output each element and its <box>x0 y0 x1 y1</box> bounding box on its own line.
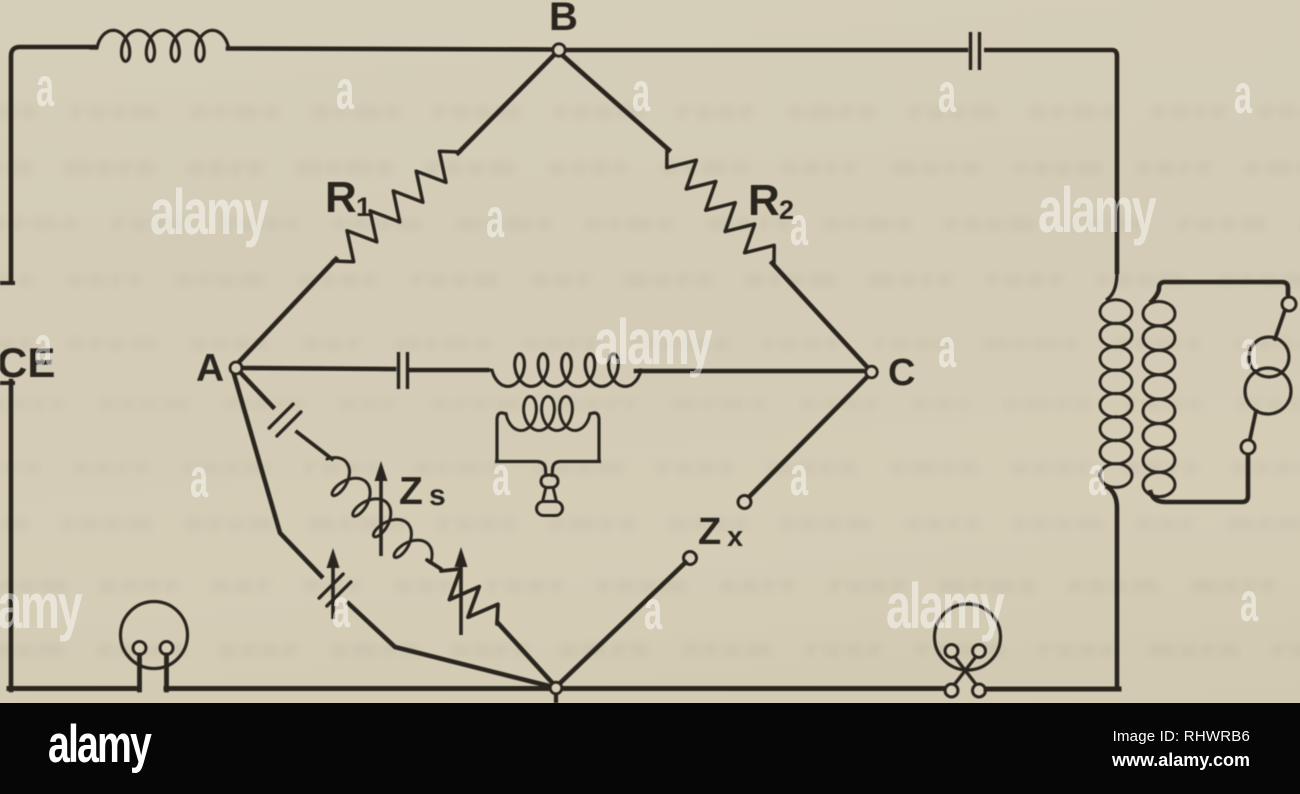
bottom rail right segment <box>986 687 1119 692</box>
crossed leads <box>955 657 977 686</box>
terminal circle Zx lower <box>684 552 697 565</box>
resistor R1 <box>333 151 460 261</box>
inductor Zs spiral <box>327 458 432 563</box>
variable resistor zigzag <box>441 569 498 624</box>
wire capacitor to corner and down <box>984 50 1117 274</box>
receiver terminals on rail <box>945 684 958 697</box>
terminal circle Zx upper <box>738 496 751 509</box>
wire A to resistor R1 <box>238 259 336 363</box>
plug/bob symbol below coupled coil <box>541 475 558 488</box>
receiver terminals upper <box>945 645 958 658</box>
wire Zx lower terminal to bottom node <box>556 563 686 688</box>
resistor R2 <box>667 148 774 265</box>
svg-text:Z: Z <box>698 511 721 553</box>
svg-text:1: 1 <box>356 192 371 222</box>
terminal circle lower <box>1241 440 1255 454</box>
wire variable resistor to bottom node <box>498 623 556 687</box>
wire secondary top to right corner terminal <box>1150 282 1288 303</box>
series inductor in A-C branch <box>484 354 641 387</box>
receiver terminals <box>133 642 146 655</box>
wire capacitor to series inductor <box>411 368 487 373</box>
transformer secondary coil <box>1143 302 1175 326</box>
wire node B to capacitor <box>563 48 966 53</box>
coupled coil (variometer secondary) <box>497 413 506 461</box>
wire left rail (top segment) with corner <box>11 47 96 284</box>
svg-text:C: C <box>888 352 915 394</box>
wire stub to source lower <box>0 381 13 385</box>
variable capacitor plates <box>319 574 343 598</box>
receiver bottom left: big circle <box>121 602 188 669</box>
svg-text:R: R <box>325 173 357 222</box>
phones double circle upper <box>1249 337 1289 377</box>
wire A lower-left branch to variable capacitor <box>233 371 323 578</box>
image id / url <box>1112 728 1250 771</box>
svg-text:s: s <box>429 479 446 512</box>
variable capacitor arrow <box>331 562 335 619</box>
bottom node <box>550 682 562 694</box>
bottom rail center segment <box>166 686 945 691</box>
wire node B to resistor R2 <box>561 54 669 150</box>
coupled coil bottom with center stem <box>495 462 546 478</box>
wire R1 to node B <box>458 54 555 153</box>
node C <box>866 366 878 378</box>
node A <box>230 362 242 374</box>
wire inductor to node B <box>228 49 552 50</box>
node B <box>553 44 565 56</box>
wire terminal to phones <box>1275 310 1285 339</box>
phones double circle lower <box>1245 368 1291 414</box>
bottom rail left segment <box>9 686 137 691</box>
wire A to series capacitor <box>240 368 394 369</box>
receiver bottom right: big circle <box>935 604 1001 670</box>
svg-text:A: A <box>196 347 224 390</box>
svg-text:x: x <box>727 521 743 553</box>
wire lower terminal to secondary bottom <box>1150 454 1248 502</box>
wire transformer primary to bottom rail <box>1106 486 1117 690</box>
wire phones to lower terminal <box>1250 411 1256 439</box>
receiver stems <box>137 655 142 690</box>
transformer primary coil <box>1106 272 1117 300</box>
arrow of Zs <box>379 475 383 556</box>
wire left rail (bottom segment) <box>9 381 14 690</box>
diagonal capacitor plates (Zs branch) <box>269 404 293 428</box>
wire variable capacitor to bottom node <box>347 602 553 687</box>
wire stub to source upper <box>0 281 13 285</box>
wire A to diagonal capacitor <box>238 370 273 407</box>
wire inductor to node C <box>636 369 866 374</box>
capacitor in top right wire <box>969 32 972 70</box>
wire node C to Zx upper terminal <box>749 376 868 497</box>
wire R2 to node C <box>772 263 868 368</box>
inductor in top wire <box>90 30 233 61</box>
arrow of variable resistor <box>459 561 463 635</box>
footer black bar <box>0 703 1300 794</box>
bottom node stem <box>554 689 558 702</box>
terminal circle upper right <box>1282 297 1296 311</box>
svg-text:R: R <box>748 176 780 225</box>
capacitor in A-C branch <box>397 352 400 389</box>
svg-text:Z: Z <box>399 470 423 513</box>
alamy logo <box>48 718 150 771</box>
svg-text:B: B <box>549 0 578 39</box>
wire capacitor to Zs coil <box>297 432 332 459</box>
